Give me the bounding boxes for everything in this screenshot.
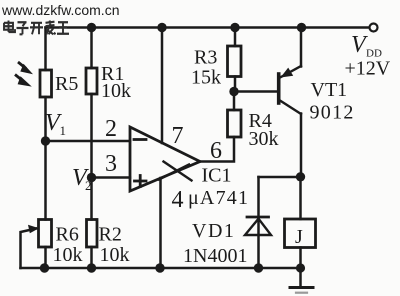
svg-text:1N4001: 1N4001: [183, 245, 247, 267]
node dot rail pin7: [157, 23, 166, 32]
wire relay top: [299, 177, 302, 219]
wire R5 bottom to V1 to R6: [44, 97, 47, 220]
wire node to diode: [259, 176, 302, 179]
wire pin4: [159, 178, 162, 268]
transistor emitter arrow: [281, 68, 294, 78]
wire R2 bottom: [90, 247, 93, 268]
diode VD1 cathode bar: [247, 216, 269, 219]
wire pin2 from V1: [46, 140, 131, 143]
wire collector down: [300, 114, 303, 178]
svg-text:R6: R6: [56, 224, 79, 246]
svg-text:10k: 10k: [101, 80, 131, 102]
node dot rail R6: [40, 263, 49, 272]
wire pin7: [161, 28, 164, 144]
svg-text:1: 1: [60, 123, 67, 138]
transistor VT1 collector: [280, 101, 301, 115]
light arrow 2: [15, 75, 23, 82]
node dot rail R3: [230, 23, 239, 32]
terminal VDD: [370, 24, 378, 32]
resistor R4 body: [228, 110, 242, 137]
svg-text:6: 6: [210, 138, 222, 164]
transistor VT1 base bar: [277, 74, 281, 103]
svg-text:3: 3: [105, 151, 117, 177]
light arrow 1: [18, 62, 26, 69]
relay J box: [285, 219, 316, 248]
op-amp minus sign: [134, 138, 146, 141]
wiper arrowhead R6: [28, 225, 39, 233]
svg-text:J: J: [295, 226, 303, 248]
wire R4 top: [233, 92, 236, 111]
svg-text:15k: 15k: [191, 67, 221, 89]
wire pin3 from V2: [92, 176, 131, 179]
wire R3 bottom: [234, 77, 237, 92]
node V1: [41, 136, 50, 145]
node dot rail R2: [87, 263, 96, 272]
potentiometer R6 body: [39, 220, 52, 248]
svg-text:+12V: +12V: [345, 58, 391, 80]
svg-text:VD1: VD1: [192, 220, 235, 242]
resistor R3 body: [228, 46, 242, 77]
wire left column R5 top: [44, 28, 47, 71]
op-amp plus sign: [135, 180, 147, 183]
svg-text:R2: R2: [99, 224, 122, 246]
svg-text:2: 2: [85, 178, 92, 193]
op-amp cross mark: [164, 162, 192, 181]
svg-text:R5: R5: [55, 73, 78, 95]
resistor R5 body: [40, 70, 52, 97]
svg-text:4: 4: [172, 187, 184, 213]
wire R3 top: [234, 28, 237, 47]
wire R1 bottom through V1 row to V2: [90, 94, 93, 220]
op-amp IC1 triangle: [130, 127, 200, 191]
wire relay bottom: [299, 248, 302, 269]
resistor R1 body: [86, 68, 97, 94]
wire diode column: [257, 177, 260, 268]
svg-text:10k: 10k: [53, 244, 83, 266]
wire R6 bottom: [44, 247, 47, 268]
node dot rail relay ground: [296, 263, 305, 272]
resistor R2 body: [87, 220, 98, 248]
label chinese site name: [4, 21, 69, 35]
svg-text:www.dzkfw.com.cn: www.dzkfw.com.cn: [1, 2, 119, 18]
wire bottom rail: [21, 267, 301, 270]
wire output pin6: [200, 137, 234, 162]
node dot rail emitter: [297, 23, 306, 32]
svg-text:IC1: IC1: [202, 165, 232, 187]
svg-text:30k: 30k: [249, 128, 279, 150]
wire R1 top: [90, 28, 93, 69]
node dot rail R1: [87, 23, 96, 32]
svg-text:μA741: μA741: [188, 187, 249, 209]
wire top rail: [46, 26, 370, 29]
wire emitter up: [300, 28, 303, 67]
node dot rail pin4: [155, 263, 164, 272]
node dot R3 R4 base: [229, 87, 238, 96]
diode VD1 triangle: [245, 219, 271, 235]
svg-text:9012: 9012: [310, 102, 355, 124]
svg-text:2: 2: [105, 116, 117, 142]
node V2: [87, 173, 96, 182]
transistor VT1 emitter: [280, 66, 301, 78]
svg-text:R3: R3: [194, 47, 217, 69]
svg-text:7: 7: [172, 123, 184, 149]
wire R6 wiper leg: [21, 229, 37, 269]
ground: [299, 268, 302, 286]
svg-text:10k: 10k: [100, 244, 130, 266]
node dot rail diode: [254, 263, 263, 272]
node dot collector diode relay: [296, 172, 305, 181]
wire base: [234, 90, 278, 93]
svg-text:VT1: VT1: [311, 79, 348, 101]
